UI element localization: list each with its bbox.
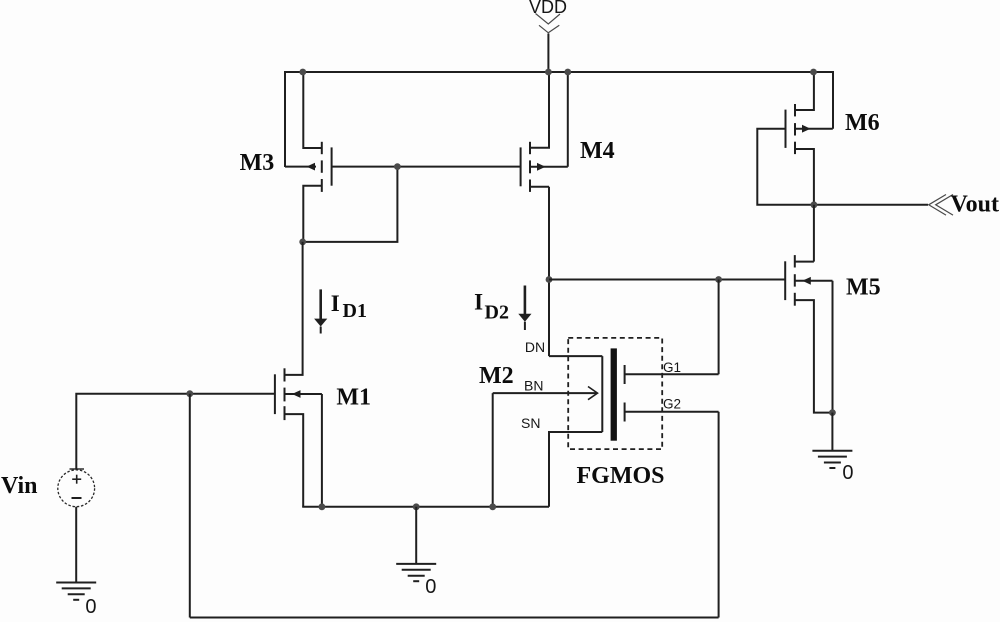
label ID2 bbox=[474, 290, 509, 324]
svg-text:M5: M5 bbox=[846, 275, 881, 301]
transistor M6 bbox=[757, 71, 833, 205]
current arrow ID1 bbox=[314, 289, 327, 333]
wire G1 to second stage node bbox=[718, 280, 720, 375]
wire diode connection M3 bbox=[303, 167, 398, 242]
wire source rail bottom bbox=[302, 506, 549, 508]
wire feedback bottom bbox=[190, 617, 719, 619]
junction dot bbox=[546, 276, 553, 283]
current arrow ID2 bbox=[518, 286, 531, 331]
svg-text:G1: G1 bbox=[663, 360, 681, 375]
wire feedback left leg bbox=[189, 394, 191, 618]
junction dot bbox=[545, 69, 552, 76]
junction dot bbox=[810, 69, 817, 76]
transistor M4 bbox=[521, 71, 568, 192]
svg-text:M4: M4 bbox=[580, 138, 615, 164]
svg-text:G2: G2 bbox=[663, 397, 681, 412]
junction dot bbox=[811, 201, 818, 208]
junction dot bbox=[319, 503, 326, 510]
wire VDD rail bbox=[285, 72, 833, 167]
wire M4 drain down to FGMOS drain bbox=[548, 187, 550, 356]
svg-text:0: 0 bbox=[842, 462, 853, 484]
junction dot bbox=[715, 276, 722, 283]
ground (tail) bbox=[396, 507, 436, 581]
svg-text:I: I bbox=[331, 291, 340, 316]
wire BN down bbox=[492, 393, 494, 507]
svg-text:FGMOS: FGMOS bbox=[577, 463, 665, 489]
junction dot bbox=[299, 69, 306, 76]
svg-text:0: 0 bbox=[425, 576, 436, 598]
svg-text:I: I bbox=[474, 290, 483, 315]
svg-text:0: 0 bbox=[85, 596, 96, 618]
junction dot bbox=[489, 503, 496, 510]
svg-text:M3: M3 bbox=[240, 150, 275, 176]
svg-text:Vout: Vout bbox=[951, 192, 999, 218]
port Vout chevron bbox=[929, 195, 953, 216]
source Vin bbox=[58, 394, 275, 583]
svg-text:DN: DN bbox=[525, 339, 545, 355]
svg-text:D2: D2 bbox=[485, 302, 509, 324]
svg-text:SN: SN bbox=[521, 415, 540, 431]
ground (Vin) bbox=[56, 583, 96, 600]
svg-text:Vin: Vin bbox=[1, 473, 37, 499]
wire G2 feedback riser bbox=[718, 412, 720, 618]
wire gate node M3/M4 bbox=[332, 166, 521, 168]
svg-text:D1: D1 bbox=[343, 300, 367, 322]
svg-text:M2: M2 bbox=[479, 363, 514, 389]
wire M6 drain to M5 drain bbox=[813, 205, 815, 262]
transistor M3 bbox=[285, 71, 332, 242]
transistor M1 bbox=[275, 242, 322, 507]
transistor M5 bbox=[785, 255, 832, 413]
junction dot bbox=[299, 239, 306, 246]
svg-text:VDD: VDD bbox=[529, 0, 567, 17]
junction dot bbox=[394, 163, 401, 170]
svg-text:BN: BN bbox=[524, 378, 543, 394]
power VDD bbox=[529, 0, 567, 72]
wire second stage node bbox=[549, 279, 785, 281]
junction dot bbox=[413, 503, 420, 510]
junction dot bbox=[186, 390, 193, 397]
junction dot bbox=[564, 69, 571, 76]
node Vout wire bbox=[814, 204, 928, 206]
transistor M2 FGMOS bbox=[493, 338, 719, 507]
junction dot bbox=[829, 409, 836, 416]
ground (M5) bbox=[812, 413, 852, 468]
svg-text:M1: M1 bbox=[336, 385, 371, 411]
label ID1 bbox=[331, 291, 367, 322]
svg-text:M6: M6 bbox=[845, 110, 880, 136]
